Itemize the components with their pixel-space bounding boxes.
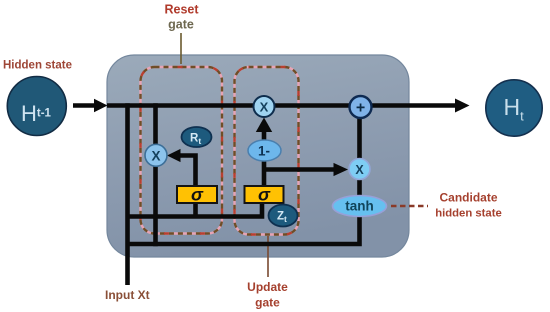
svg-text:Input Xt: Input Xt <box>105 288 150 302</box>
svg-text:Reset: Reset <box>164 3 199 17</box>
svg-text:Candidate: Candidate <box>439 191 497 205</box>
svg-text:X: X <box>355 163 364 177</box>
svg-text:hidden state: hidden state <box>435 208 502 220</box>
svg-text:+: + <box>356 100 365 117</box>
svg-text:Update: Update <box>247 280 288 294</box>
svg-text:gate: gate <box>168 18 194 32</box>
svg-text:σ: σ <box>191 185 204 205</box>
svg-text:X: X <box>151 148 160 163</box>
svg-text:σ: σ <box>258 185 271 205</box>
svg-text:Hidden state: Hidden state <box>3 60 72 72</box>
svg-text:1-: 1- <box>258 144 270 159</box>
svg-text:gate: gate <box>255 296 280 310</box>
svg-text:tanh: tanh <box>345 199 374 214</box>
svg-text:X: X <box>260 100 269 115</box>
